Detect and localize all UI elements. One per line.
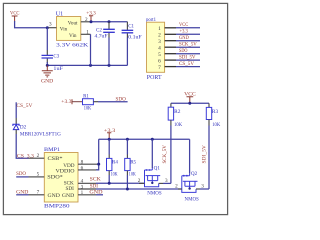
wire D2 to CS_3.3 row (15, 130, 17, 134)
pin 5 SDO (29, 176, 45, 178)
svg-text:10K: 10K (174, 122, 182, 128)
power port +3.3 (R1 feed) (61, 99, 82, 105)
svg-text:VDDIO: VDDIO (56, 169, 75, 175)
junction SDI-R5 (126, 188, 129, 191)
svg-text:1: 1 (86, 29, 89, 35)
svg-text:GND: GND (89, 189, 102, 195)
pin 2 (Vout) (81, 21, 91, 23)
wire Q2 drain to SDI_5V (200, 188, 209, 190)
wire port pin6 (176, 59, 200, 61)
capacitor C1 (122, 22, 142, 66)
svg-text:6: 6 (158, 59, 161, 65)
svg-text:C3: C3 (53, 55, 59, 60)
pin 5 (165, 53, 176, 55)
junction C2 top (108, 20, 111, 23)
svg-text:10K: 10K (111, 172, 118, 177)
svg-text:4: 4 (158, 46, 161, 52)
svg-text:SDO*: SDO* (47, 175, 63, 181)
wire SDI_5V vertical (208, 120, 210, 126)
wire SCK_5V vertical (170, 120, 172, 125)
pin 6 (165, 59, 176, 61)
svg-text:5: 5 (37, 172, 40, 178)
pin 4 SCK (78, 182, 96, 184)
junction gnd-U1pin1 (89, 64, 92, 67)
svg-text:Vin: Vin (69, 33, 77, 39)
wire VCC tee (171, 102, 209, 104)
svg-text:1uF: 1uF (53, 67, 63, 72)
svg-text:SDI_5V: SDI_5V (201, 145, 207, 164)
power port +3.3 (rail) (104, 128, 116, 140)
svg-text:SCK_5V: SCK_5V (162, 145, 168, 164)
wire U1 pin2 to caps (91, 21, 127, 23)
wire R4 bottom (108, 171, 110, 175)
svg-text:2: 2 (175, 184, 178, 190)
svg-text:PORT: PORT (147, 75, 162, 81)
svg-text:3.3V 662K: 3.3V 662K (56, 42, 88, 48)
svg-text:GND: GND (48, 193, 61, 199)
svg-text:SDO: SDO (116, 97, 127, 103)
wire VCC to U1 pin3 (15, 21, 49, 28)
svg-text:R5: R5 (130, 160, 136, 165)
pin 3 (165, 40, 176, 42)
svg-text:BMP280: BMP280 (44, 204, 70, 210)
transistor Q2 (175, 139, 204, 202)
wire GND stub (bmp right) (96, 194, 103, 196)
svg-text:+3.3: +3.3 (61, 99, 72, 105)
wire SCK row (96, 182, 145, 184)
wire VDD riser (96, 139, 99, 170)
resistor R5 (125, 158, 137, 177)
junction gnd-C3 (46, 64, 49, 67)
svg-text:6: 6 (81, 165, 84, 171)
wire Q1 drain to SCK_5V (163, 182, 171, 184)
wire R4 top (108, 139, 110, 154)
svg-text:0.1uF: 0.1uF (128, 36, 142, 41)
svg-text:7: 7 (158, 65, 161, 71)
pin 3 (left) (48, 27, 56, 29)
svg-text:D2: D2 (20, 124, 27, 130)
wire R3 top (208, 103, 210, 107)
wire C3 column (46, 28, 48, 50)
junction power tap (90, 20, 93, 23)
svg-text:SDO: SDO (179, 48, 188, 54)
svg-text:SCK_5V: SCK_5V (179, 42, 197, 48)
svg-text:1: 1 (81, 190, 84, 196)
wire port pin5 (176, 53, 200, 55)
svg-text:Q1: Q1 (154, 165, 161, 171)
wire R5 top (126, 139, 128, 154)
svg-text:1: 1 (158, 26, 161, 32)
pin 7 (165, 66, 176, 68)
pin 2 CSB (29, 157, 45, 159)
pin 4 (165, 46, 176, 48)
pin 8 VDD (78, 163, 99, 165)
svg-text:10K: 10K (129, 172, 136, 177)
pin 1 (165, 27, 176, 29)
wire port pin7 (176, 66, 200, 68)
power port VCC (right) (184, 91, 196, 103)
svg-text:2: 2 (138, 178, 141, 184)
connector port1 (146, 17, 176, 81)
pin 7 GND (29, 194, 45, 196)
sheet border (3, 3, 227, 214)
svg-text:10K: 10K (84, 107, 92, 112)
junction SCK-R4 (108, 182, 111, 185)
wire R5 bottom (126, 171, 128, 175)
svg-text:CS_5V: CS_5V (179, 61, 194, 67)
svg-text:+3.3: +3.3 (180, 29, 189, 35)
svg-text:VCC: VCC (179, 22, 189, 28)
junction C3 tap (46, 26, 49, 29)
junction VCC (188, 102, 191, 105)
junction VDD (97, 163, 100, 166)
svg-text:GND: GND (62, 193, 75, 199)
gnd rail (47, 64, 127, 66)
svg-text:CS_5V: CS_5V (16, 103, 32, 109)
svg-text:2: 2 (158, 33, 161, 39)
junction gnd-C2 (108, 64, 111, 67)
diode D2 (schottky) (13, 124, 61, 137)
wire port pin3 (176, 40, 200, 42)
resistor R2 (168, 107, 182, 128)
svg-text:GND: GND (16, 189, 29, 195)
wire port pin1 (176, 27, 200, 29)
wire CS_5V down to D2 (15, 102, 17, 118)
svg-text:10K: 10K (212, 122, 220, 128)
wire C3 to gnd rail (46, 62, 48, 65)
power port +3.3 (regulator out) (86, 11, 96, 22)
svg-text:CSB*: CSB* (48, 156, 63, 162)
svg-text:7: 7 (37, 189, 40, 195)
wire SDI row (96, 188, 182, 190)
svg-text:C2: C2 (96, 29, 102, 34)
power port VCC (top-left) (10, 11, 20, 22)
svg-text:SDO: SDO (16, 171, 26, 177)
svg-text:SDI_5V: SDI_5V (179, 54, 196, 60)
svg-text:SCK: SCK (90, 177, 101, 183)
capacitor C3 (42, 50, 64, 72)
transistor Q1 (138, 139, 168, 196)
regulator U1 (48, 10, 91, 48)
svg-text:4.7uF: 4.7uF (95, 35, 108, 40)
svg-text:3: 3 (49, 22, 52, 28)
svg-text:NMOS: NMOS (185, 196, 199, 202)
svg-text:Q2: Q2 (191, 171, 198, 177)
resistor R3 (206, 107, 220, 127)
junction rail R5 (126, 138, 129, 141)
svg-text:R3: R3 (212, 109, 219, 115)
wire SDO stub (16, 176, 28, 178)
svg-text:3: 3 (158, 39, 161, 45)
pin 6 VDDIO (78, 169, 99, 171)
svg-text:NMOS: NMOS (147, 191, 161, 197)
wire port pin2 (176, 33, 200, 35)
pin 1 GND (78, 194, 96, 196)
wire R2 top (170, 103, 172, 107)
sensor BMP1 (29, 147, 99, 210)
svg-text:C1: C1 (128, 24, 134, 29)
svg-text:Vout: Vout (68, 21, 78, 27)
svg-text:2: 2 (85, 17, 88, 23)
svg-text:SDI: SDI (65, 186, 74, 192)
svg-text:MBR120VLSFT1G: MBR120VLSFT1G (20, 131, 61, 137)
capacitor C2 (95, 22, 115, 66)
wire R1 to SDO (98, 101, 128, 103)
svg-text:R4: R4 (112, 160, 118, 165)
pin 1 (right bottom) (81, 33, 91, 35)
wire U1 pin1 down to gnd rail (90, 34, 92, 65)
svg-text:5: 5 (158, 52, 161, 58)
svg-text:Vin: Vin (60, 27, 68, 33)
wire port pin4 (176, 46, 200, 48)
wire GND stub (16, 194, 28, 196)
junction rail Q1 gate (151, 138, 154, 141)
svg-text:2: 2 (37, 153, 40, 159)
pin 2 (165, 33, 176, 35)
resistor R4 (107, 158, 119, 177)
svg-text:R2: R2 (174, 109, 181, 115)
svg-text:GND: GND (179, 35, 189, 41)
pin 3 SDI (78, 188, 96, 190)
resistor R1 (83, 95, 99, 112)
svg-text:GND: GND (41, 79, 53, 85)
junction rail R4 (108, 138, 111, 141)
+3.3 rail (99, 138, 190, 140)
ground symbol (41, 65, 53, 84)
